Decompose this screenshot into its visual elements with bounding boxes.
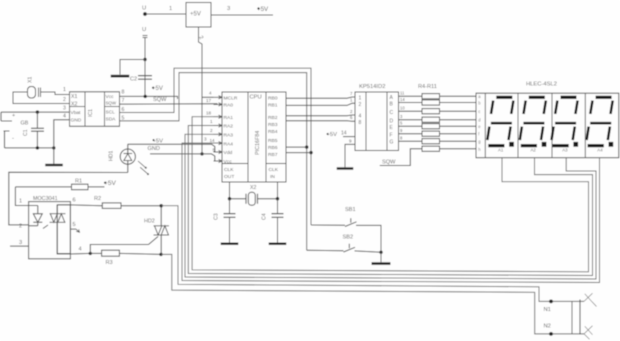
capacitor C1 (31, 112, 44, 148)
svg-text:10: 10 (400, 106, 405, 111)
display digit A4 (587, 97, 614, 152)
svg-text:Vbat: Vbat (71, 110, 82, 116)
wire +5V to Vdd pin14 (128, 138, 218, 152)
switch SB1 (311, 207, 381, 252)
svg-text:MCLR: MCLR (224, 95, 238, 101)
svg-text:Vcc: Vcc (224, 159, 233, 165)
resistor R1 (15, 179, 104, 190)
svg-text:2: 2 (19, 224, 22, 230)
svg-text:1: 1 (359, 96, 362, 102)
svg-text:18: 18 (206, 110, 212, 115)
wire bottom rail (5, 146, 56, 149)
svg-text:5: 5 (73, 222, 76, 228)
svg-text:CPU: CPU (250, 95, 262, 101)
wire RB6 to SB2 line (286, 146, 307, 148)
wire N1-N2 link right (579, 300, 581, 335)
resistor R9 (399, 131, 477, 136)
node +5V label (152, 86, 163, 92)
svg-text:5: 5 (122, 116, 125, 122)
svg-text:SQW: SQW (106, 101, 117, 106)
wire CLK OUT down (229, 182, 231, 199)
ground (switches) (372, 262, 391, 265)
svg-text:C2: C2 (130, 77, 137, 83)
svg-text:GND: GND (71, 118, 82, 124)
wire opto pin6 to R2 (57, 198, 102, 206)
wire regulator pin2 ground (197, 27, 204, 154)
resistor R3 (90, 250, 161, 266)
wire IC1 SQW pin7 to CPU RA0 (120, 97, 218, 104)
wire CLK IN down (277, 182, 279, 199)
decoder IC2 KP514ID2 (350, 84, 399, 151)
wire RA2 to display bus line2 (188, 126, 592, 276)
switch SB2 (307, 235, 381, 253)
svg-text:G: G (390, 140, 394, 146)
svg-text:A3: A3 (562, 148, 568, 153)
svg-text:RA2: RA2 (224, 124, 234, 130)
display digit A2 (520, 97, 547, 152)
wire RB1 to IC2 (286, 103, 355, 105)
IC2 right pin numbers (400, 91, 405, 141)
wire RB2 to IC2 (286, 114, 355, 117)
capacitor C2 (130, 76, 152, 83)
wire GND to Vss pin5 (148, 146, 219, 161)
wire branch to ground (120, 60, 145, 75)
svg-text:SCL: SCL (106, 110, 116, 116)
wire IC1 Vcc pin8 to +5V (120, 90, 178, 100)
svg-text:8: 8 (122, 90, 125, 96)
LED display HL1 HLEC-4SL2 (476, 82, 619, 158)
svg-text:RB3: RB3 (268, 122, 278, 128)
node RB6 tap (305, 145, 308, 148)
svg-text:17: 17 (206, 98, 212, 103)
CPU PIC16F84 U2 (222, 92, 286, 182)
wire triac bottom to N2 bus line6 (161, 254, 584, 334)
LED HD1 (109, 144, 150, 175)
wire opto pin5 stub (70, 222, 79, 232)
wire IC1 SCL around CPU (outer loop) (120, 68, 312, 225)
wire R1 to opto pin1 (15, 187, 28, 206)
svg-text:RB4: RB4 (268, 129, 278, 135)
node triac top junction (160, 204, 163, 207)
svg-text:4: 4 (359, 114, 362, 120)
svg-text:RB0: RB0 (268, 96, 278, 102)
resistor R2 (94, 196, 161, 208)
wire X1 to IC1 pin2 (13, 92, 70, 104)
svg-text:Vcc: Vcc (106, 94, 115, 100)
svg-text:+: + (12, 113, 15, 119)
wire +5V stub to IC2 pin14 (327, 131, 356, 139)
svg-text:N1: N1 (544, 307, 551, 313)
ground (IC1) (45, 148, 63, 166)
svg-text:+5V: +5V (327, 132, 338, 138)
resistor network R4-R11 (418, 84, 437, 90)
svg-text:3: 3 (204, 137, 207, 142)
svg-text:HLEC-4SL2: HLEC-4SL2 (526, 82, 557, 88)
terminal N2 (544, 324, 553, 336)
svg-text:14: 14 (210, 138, 216, 143)
node SQW label wire (380, 149, 422, 166)
CPU left pin stubs with arrows (204, 91, 222, 163)
svg-text:RB6: RB6 (268, 145, 278, 151)
svg-text:1: 1 (169, 6, 172, 12)
RTC IC1 (70, 92, 120, 127)
svg-text:R4-R11: R4-R11 (418, 84, 437, 90)
svg-text:SDA: SDA (106, 117, 117, 123)
wire RB7 to SB1 line (286, 152, 311, 154)
svg-text:RB5: RB5 (268, 138, 278, 144)
svg-text:X2: X2 (250, 185, 256, 191)
svg-text:SB1: SB1 (345, 207, 356, 213)
svg-text:HD1: HD1 (109, 151, 115, 161)
wire opto pin4 out (57, 247, 90, 255)
svg-text:1: 1 (210, 119, 213, 124)
wire triac top to N1 bus line5 (161, 206, 584, 302)
wire RA4 to display bus line4 (182, 143, 600, 282)
svg-text:+5V: +5V (153, 138, 164, 144)
node battery/C1 top (36, 110, 39, 113)
svg-text:4: 4 (63, 113, 66, 119)
svg-text:+5V: +5V (104, 180, 117, 187)
svg-text:RB7: RB7 (268, 152, 278, 158)
svg-text:c: c (478, 109, 480, 114)
svg-text:7: 7 (122, 98, 125, 104)
wire RB0 to IC2 (286, 97, 355, 98)
svg-text:HD2: HD2 (144, 219, 155, 225)
svg-text:4: 4 (209, 91, 212, 96)
resistor R10 (399, 139, 477, 144)
node RB7 tap (309, 151, 312, 154)
ground (IC2) (337, 167, 354, 169)
svg-text:N2: N2 (544, 324, 551, 330)
resistor R6 (399, 109, 477, 114)
svg-text:GB: GB (21, 121, 29, 127)
optocoupler MOC3041 (29, 196, 71, 259)
terminal N1 (544, 300, 553, 314)
svg-text:MOC3041: MOC3041 (33, 196, 58, 202)
svg-text:CLK: CLK (269, 167, 279, 173)
crystal X2 (230, 185, 278, 205)
capacitor C3 (214, 199, 236, 243)
svg-text:3: 3 (227, 6, 230, 12)
svg-text:14: 14 (400, 97, 405, 102)
svg-text:RA3: RA3 (224, 133, 234, 139)
svg-text:X1: X1 (71, 94, 77, 100)
resistor R11 (422, 146, 476, 151)
wire X1 to IC1 pin1 (41, 87, 70, 95)
svg-text:GND: GND (148, 146, 160, 152)
svg-text:6: 6 (73, 198, 76, 204)
svg-text:4: 4 (79, 247, 82, 253)
svg-text:R3: R3 (106, 260, 113, 266)
svg-text:C3: C3 (214, 213, 220, 220)
wire opto pin2 label (19, 224, 22, 230)
svg-text:KP514ID2: KP514ID2 (359, 84, 385, 90)
svg-text:F: F (390, 132, 393, 138)
svg-text:A1: A1 (498, 148, 504, 153)
wire digit A1 common (501, 157, 503, 159)
display digit A3 (552, 97, 579, 152)
svg-text:RB2: RB2 (268, 115, 278, 121)
wire terminal to +5V rail junction (144, 38, 146, 60)
svg-text:2: 2 (359, 102, 362, 108)
node GND junction (regulator pin2 meets Vss wire) (200, 152, 203, 155)
svg-text:R2: R2 (94, 196, 101, 202)
svg-text:RA0: RA0 (224, 103, 234, 109)
svg-text:R1: R1 (75, 179, 82, 185)
svg-text:SQW: SQW (153, 97, 167, 103)
wire RA1 to display bus line1 (192, 117, 588, 272)
svg-text:IC1: IC1 (88, 109, 94, 117)
node switches common (379, 251, 382, 263)
svg-text:PIC16F84: PIC16F84 (255, 131, 261, 155)
wire to IC1 pin4 GND (54, 113, 70, 148)
svg-text:SQW: SQW (382, 160, 396, 166)
wire RA3 to display bus line3 (185, 134, 596, 279)
wire N1-N2 link left (571, 301, 573, 334)
wire HD1 cathode to optocoupler pin2 (9, 172, 128, 225)
svg-text:14: 14 (341, 131, 347, 137)
node triac bottom junction (159, 253, 162, 256)
triac HD2 (144, 206, 169, 255)
svg-text:CLK: CLK (224, 167, 234, 173)
svg-text:-: - (12, 136, 14, 142)
svg-text:8: 8 (359, 120, 362, 126)
svg-text:9: 9 (349, 139, 352, 144)
svg-text:1: 1 (19, 199, 22, 205)
svg-text:U: U (142, 27, 146, 33)
wire RB3 to IC2 (286, 120, 355, 122)
svg-text:D: D (390, 118, 394, 124)
node X2 right (276, 197, 279, 200)
svg-text:2: 2 (63, 97, 66, 103)
terminal U (second input) (142, 27, 148, 38)
ground (C4) (269, 243, 287, 245)
wire IC2 GND pin to ground (345, 139, 355, 168)
svg-text:C: C (390, 110, 394, 116)
node +5V (R1) (104, 180, 117, 187)
ground (C3) (221, 243, 239, 245)
wire gate network (90, 237, 158, 254)
resistor R4 (399, 94, 477, 99)
node pin4 junction (89, 252, 92, 255)
svg-text:A2: A2 (531, 148, 537, 153)
wire battery top to IC1 pin3 Vbat (1, 106, 70, 113)
svg-text:X1: X1 (28, 77, 34, 83)
terminal U (regulator input) (142, 6, 147, 16)
node X2 left (228, 197, 231, 200)
svg-text:U: U (142, 6, 146, 12)
capacitor C4 (262, 199, 284, 243)
resistor R5 (399, 100, 477, 105)
wire opto pin3 stub (10, 240, 29, 246)
wire C2 to IC1 Vcc (144, 60, 146, 97)
svg-text:1: 1 (63, 87, 66, 93)
svg-text:IN: IN (270, 174, 275, 180)
wire input to regulator (146, 6, 186, 14)
connector arrows N1 (584, 293, 597, 306)
svg-text:X2: X2 (71, 101, 77, 107)
svg-text:Vdd: Vdd (224, 150, 233, 156)
crystal X1 (28, 77, 41, 98)
node +5V (regulator output label) (257, 6, 269, 13)
svg-text:RB1: RB1 (268, 103, 278, 109)
svg-text:RA4: RA4 (224, 141, 234, 147)
wire IC1 SDA around CPU (inner loop) (120, 73, 307, 251)
svg-text:A4: A4 (597, 148, 603, 153)
svg-text:OUT: OUT (224, 174, 234, 180)
svg-text:3: 3 (63, 106, 66, 112)
svg-text:SB2: SB2 (343, 235, 354, 241)
svg-text:+5V: +5V (152, 86, 163, 92)
svg-text:2: 2 (210, 128, 213, 133)
wire regulator output to +5V (211, 6, 273, 15)
display digit A1 (487, 97, 514, 152)
resistor R8 (399, 124, 477, 129)
svg-text:+5V: +5V (190, 12, 201, 18)
node junction C2 branch (143, 58, 146, 61)
voltage regulator U1 +5V (186, 3, 211, 28)
wire MCLR stub (202, 96, 214, 98)
svg-text:3: 3 (19, 240, 22, 246)
battery GB (1, 112, 29, 148)
svg-text:RA1: RA1 (224, 115, 234, 121)
svg-text:C1: C1 (23, 129, 29, 136)
resistor R7 (399, 117, 477, 122)
ground (near C2) (111, 75, 130, 78)
svg-text:6: 6 (122, 107, 125, 113)
svg-text:11: 11 (400, 91, 405, 96)
connector arrows N2 (584, 326, 593, 340)
svg-text:C4: C4 (262, 213, 268, 220)
